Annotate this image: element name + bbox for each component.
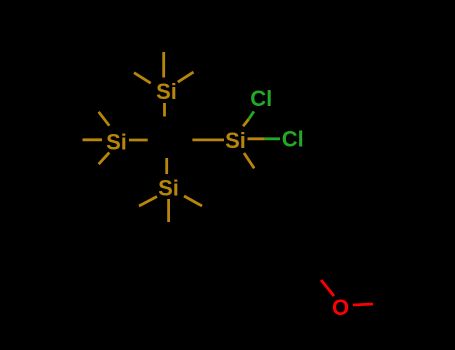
svg-text:Si: Si [156,79,177,104]
wire: bottom Si methyl bond down-right [184,196,202,206]
wire: chain C to O (O half) [321,280,334,296]
wire: top Si methyl bond up [162,52,165,78]
svg-text:Cl: Cl [250,86,272,111]
svg-text:Si: Si [106,130,127,155]
wire: left Si to central C [129,139,148,142]
wire: right Si to right Cl (Si half) [248,137,265,140]
wire: right Si to top Cl (Cl half) [249,111,254,119]
wire: top Si to central C [163,103,166,117]
wire: top Si methyl bond up-right [178,72,194,82]
wire: top Si methyl bond up-left [134,73,151,84]
wire: bottom Si methyl bond down [167,199,170,222]
wire: O to methyl (O half) [353,304,373,305]
wire: right Si to right Cl (Cl half) [265,137,280,140]
wire: left Si methyl bond up [99,112,110,126]
svg-text:Si: Si [158,176,179,201]
wire: left Si methyl bond down-left [99,153,110,165]
svg-text:Si: Si [225,128,246,153]
wire: right Si to top Cl (Si half) [243,119,249,126]
wire: central C to right Si [192,138,224,141]
wire: bottom Si to central C [165,158,168,174]
wire: left Si methyl bond left [83,138,103,141]
svg-text:Cl: Cl [282,127,304,152]
svg-text:O: O [332,295,349,320]
wire: right Si to propyl chain [244,153,254,168]
wire: bottom Si methyl bond down-left [139,197,157,207]
